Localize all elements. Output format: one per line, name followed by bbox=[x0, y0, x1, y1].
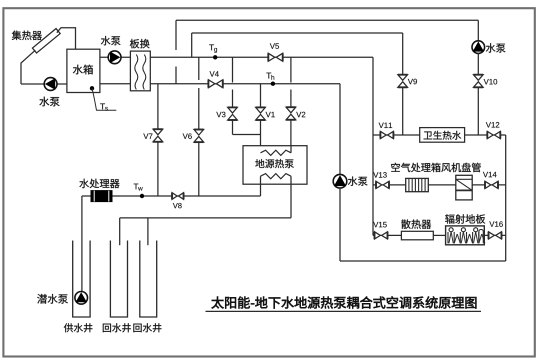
water tank 水箱 bbox=[67, 49, 100, 92]
branch V6 wire mid bbox=[198, 88, 200, 130]
branch V6 wire lower bbox=[198, 142, 200, 196]
sensor Tg dot bbox=[213, 55, 217, 59]
well supply pipe (horizontal) bbox=[82, 195, 261, 197]
wire collector-top to tank-top bbox=[57, 28, 76, 50]
label 散热器 bbox=[401, 219, 410, 228]
solar collector bbox=[32, 29, 60, 53]
label 板换 bbox=[130, 39, 140, 48]
radiant floor 辐射地板 bbox=[446, 226, 485, 245]
valve V1 bbox=[256, 107, 266, 113]
sensor Th dot bbox=[271, 82, 275, 86]
branch V3 lower wire bbox=[232, 120, 234, 135]
label 集热器 bbox=[12, 31, 22, 40]
air line left bbox=[373, 184, 406, 186]
evaporator zigzag (top) bbox=[261, 150, 292, 155]
water processor 水处理器 bbox=[91, 191, 112, 202]
label Tg bbox=[209, 44, 214, 50]
heat pump box 地源热泵 bbox=[243, 146, 307, 185]
wire tank to HX lower bbox=[100, 83, 130, 85]
label V10 bbox=[484, 79, 489, 84]
hot water line right bbox=[465, 134, 506, 136]
label 回水井 (2) bbox=[133, 324, 141, 333]
valve V5 bbox=[268, 53, 275, 61]
wire tank to pump P2 bbox=[100, 56, 130, 58]
air line right bbox=[472, 184, 506, 186]
return well 2 bbox=[140, 241, 157, 318]
valve V3 bbox=[228, 107, 238, 113]
air handling unit (hatched box) bbox=[406, 178, 429, 191]
sensor Tw dot bbox=[140, 194, 144, 198]
wire pump to V10 bbox=[477, 53, 479, 74]
label 水泵 (P2) bbox=[101, 36, 111, 45]
label 水处理器 bbox=[79, 179, 89, 188]
fan coil unit bbox=[456, 175, 472, 200]
label Ts bbox=[100, 103, 105, 109]
valve V7 bbox=[153, 129, 163, 135]
branch V1 lower wire bbox=[260, 120, 262, 153]
branch V6 wire upper bbox=[198, 57, 200, 80]
label 回水井 (1) bbox=[103, 324, 111, 333]
title 太阳能-地下水地源热泵耦合式空调系统原理图 bbox=[211, 297, 223, 309]
valve V8 bbox=[172, 193, 177, 200]
branch V1 upper wire bbox=[260, 84, 262, 108]
valve V6 bbox=[194, 130, 204, 136]
riser pump upper bbox=[477, 20, 479, 41]
supply well riser bbox=[81, 196, 83, 292]
label 供水井 bbox=[64, 323, 73, 332]
valve V16 bbox=[489, 232, 495, 239]
label V2 bbox=[296, 112, 301, 117]
return pipe (horizontal) bbox=[120, 217, 291, 219]
label V3 bbox=[216, 112, 221, 117]
radiator line right bbox=[484, 234, 505, 236]
valve V11 bbox=[380, 131, 386, 138]
label Th bbox=[266, 73, 271, 79]
valve V4 bbox=[208, 80, 215, 88]
riser V9 lower bbox=[402, 87, 404, 135]
wire collector-bottom down-left bbox=[21, 50, 35, 84]
label V16 bbox=[489, 221, 494, 226]
label 水箱 bbox=[73, 65, 83, 75]
sanitary hot water box 卫生热水 bbox=[420, 128, 465, 143]
return drop 2 bbox=[147, 218, 149, 245]
sensor Ts dot bbox=[90, 86, 94, 90]
riser x192 bbox=[191, 33, 193, 57]
wire heat pump bottom-left out bbox=[260, 176, 262, 196]
branch V3 upper wire bbox=[232, 57, 234, 82]
riser x340 lower bbox=[339, 188, 341, 261]
riser x340 upper (pipe2 down) bbox=[339, 84, 341, 175]
pump P3 (user loop) bbox=[333, 174, 347, 188]
valve V15 bbox=[375, 232, 381, 239]
valve V13 bbox=[376, 181, 382, 188]
wire zigzag-right up to box top bbox=[290, 146, 292, 153]
right return riser bbox=[505, 135, 507, 261]
label 潜水泵 bbox=[37, 294, 47, 304]
label 卫生热水 bbox=[424, 132, 433, 140]
label V6 bbox=[183, 134, 188, 139]
label V4 bbox=[210, 71, 215, 76]
top header line bbox=[176, 19, 478, 21]
pipe 1 (upper supply) bbox=[150, 56, 373, 58]
pump P4 (hot water) bbox=[472, 41, 485, 54]
wire to pump P1 bbox=[21, 83, 67, 85]
label V5 bbox=[270, 43, 275, 48]
label V11 bbox=[379, 123, 384, 128]
hot water line left bbox=[373, 134, 420, 136]
label V14 bbox=[483, 172, 488, 177]
branch V2 lower wire bbox=[290, 120, 292, 153]
pump P1 (solar loop) bbox=[44, 78, 57, 91]
label 水泵 (P3) bbox=[348, 176, 358, 185]
label V13 bbox=[373, 172, 378, 177]
Ts leader line bbox=[92, 88, 116, 110]
label 水泵 (P1) bbox=[39, 97, 49, 107]
label 水泵 (P4) bbox=[486, 43, 496, 52]
label V7 bbox=[143, 134, 148, 139]
branch V7 wire lower bbox=[157, 142, 159, 196]
branch V3 wire below pipe2 bbox=[232, 90, 234, 108]
pipe 2 (lower supply) bbox=[150, 83, 340, 85]
label 空气处理箱风机盘管 bbox=[391, 163, 400, 172]
label V9 bbox=[408, 79, 413, 84]
label 地源热泵 bbox=[255, 159, 264, 168]
valve V10 bbox=[474, 75, 484, 81]
plate heat exchanger 板换 bbox=[130, 51, 150, 91]
riser V10 lower bbox=[477, 87, 479, 135]
branch V2 upper wire bbox=[290, 57, 292, 82]
valve V12 bbox=[487, 131, 493, 138]
supply well bbox=[73, 241, 90, 318]
label Tw bbox=[134, 184, 139, 190]
submersible pump 潜水泵 bbox=[75, 292, 88, 305]
pump P2 (tank to HX) bbox=[108, 51, 121, 64]
label 辐射地板 bbox=[445, 214, 454, 223]
condenser zigzag (bottom) bbox=[261, 174, 292, 179]
valve V9 bbox=[398, 75, 408, 81]
label V12 bbox=[486, 122, 491, 127]
wire heat pump bottom-right out bbox=[290, 176, 292, 218]
second header line bbox=[192, 32, 403, 34]
riser x176 upper bbox=[175, 20, 177, 50]
label V8 bbox=[173, 203, 178, 208]
return well 1 bbox=[110, 241, 127, 318]
air line mid bbox=[428, 184, 456, 186]
valve V2 bbox=[286, 107, 296, 113]
riser x176 lower bbox=[175, 67, 177, 84]
radiator line mid bbox=[433, 234, 445, 236]
title underline bbox=[206, 310, 482, 312]
valve V14 bbox=[485, 181, 491, 188]
return drop 1 bbox=[119, 218, 121, 245]
branch V7 wire upper bbox=[157, 84, 159, 130]
wire V3-to-V1 jog bbox=[233, 134, 261, 136]
riser x373 (pipe1 down) bbox=[372, 57, 374, 235]
label V15 bbox=[373, 222, 378, 227]
branch V2 wire below pipe2 bbox=[290, 90, 292, 108]
radiator line left bbox=[373, 234, 401, 236]
label V1 bbox=[266, 112, 271, 117]
bottom return line bbox=[340, 260, 506, 262]
riser V9 upper bbox=[402, 33, 404, 75]
radiator 散热器 bbox=[401, 231, 433, 240]
